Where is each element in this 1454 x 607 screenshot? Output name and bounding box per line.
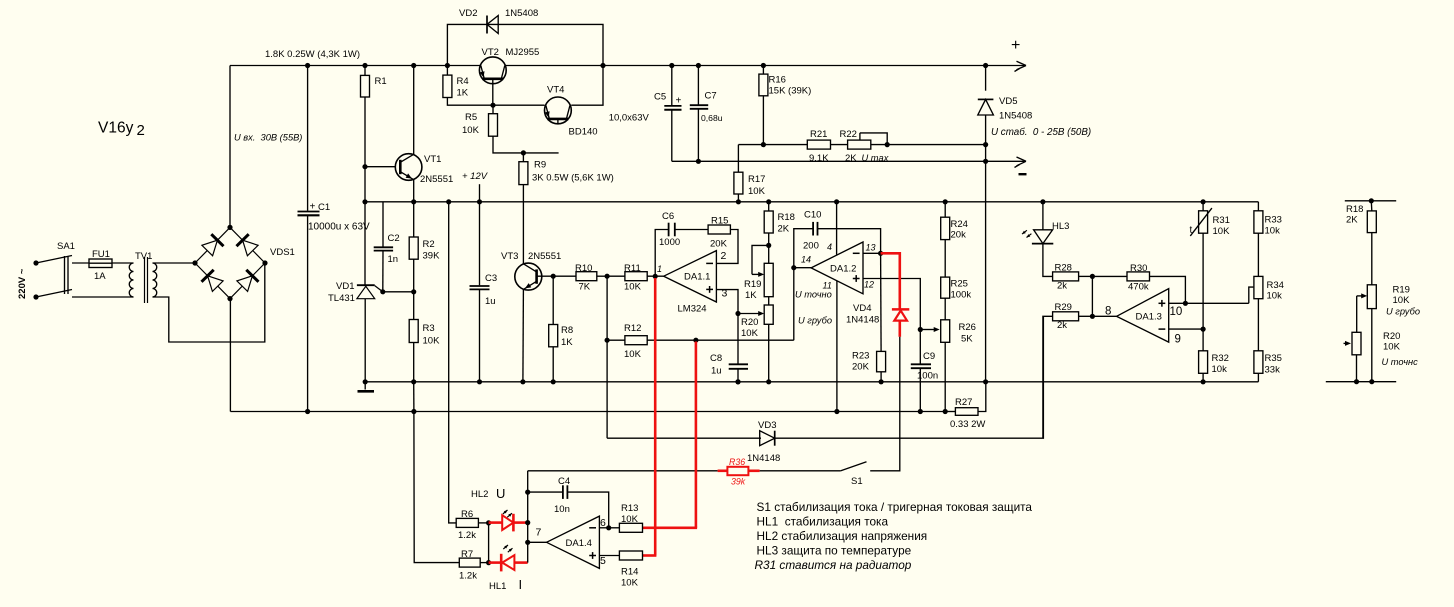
svg-text:R23: R23: [852, 351, 869, 362]
resistor R15: [708, 225, 730, 234]
wire VD3 row right: [774, 316, 1044, 438]
wire VD2 loop: [447, 24, 603, 65]
node HL3 rail: [1040, 199, 1045, 204]
op-amp DA1.4: [547, 516, 600, 568]
svg-text:5K: 5K: [961, 334, 973, 345]
resistor R36: [718, 469, 728, 472]
svg-text:1.2k: 1.2k: [459, 571, 477, 582]
svg-text:R6: R6: [461, 509, 473, 520]
svg-text:C9: C9: [923, 351, 935, 362]
resistor R7: [459, 558, 480, 567]
wire red DA1.1 output down: [654, 278, 657, 556]
diode bridge VDS1 bottom-left: [208, 276, 224, 292]
resistor R34 potentiometer: [1254, 276, 1263, 298]
wire VD1 anode: [364, 299, 366, 382]
node C7 top: [696, 63, 701, 68]
resistor R17: [737, 145, 739, 173]
resistor R32: [1202, 329, 1204, 351]
wire bridge arm BR: [230, 263, 265, 299]
wire +12V bus: [365, 201, 1258, 203]
svg-text:1A: 1A: [94, 271, 106, 282]
svg-text:9: 9: [1175, 334, 1181, 346]
svg-text:R29: R29: [1055, 302, 1072, 313]
svg-text:C7: C7: [705, 91, 717, 102]
svg-text:R2: R2: [423, 239, 435, 250]
wire pin4: [836, 202, 838, 255]
resistor R11: [607, 275, 625, 277]
capacitor C2: [382, 202, 384, 247]
wire SA1 bottom to TV1: [72, 296, 134, 298]
svg-text:R31: R31: [1213, 215, 1230, 226]
svg-text:C5: C5: [654, 92, 666, 103]
wire R28 R29 join: [1091, 276, 1093, 316]
node right R20 bottom: [1354, 379, 1359, 384]
transistor VT4 BD140: [545, 97, 572, 124]
node R4 rail: [445, 63, 450, 68]
arrow + output: [1017, 61, 1027, 65]
svg-text:R28: R28: [1055, 263, 1072, 274]
node HL1 left: [486, 560, 491, 565]
capacitor C1: [307, 66, 309, 211]
node R24 rail: [943, 199, 948, 204]
svg-text:+: +: [310, 202, 316, 213]
wire R34 wiper: [1249, 287, 1254, 303]
ground symbol: [364, 382, 366, 390]
svg-text:20K: 20K: [710, 239, 728, 250]
wire right bottom segment: [1326, 381, 1396, 383]
svg-text:1.2k: 1.2k: [458, 530, 476, 541]
node pin14: [791, 265, 796, 270]
node R10 R11: [605, 274, 610, 279]
svg-text:2k: 2k: [1057, 281, 1067, 292]
svg-text:R32: R32: [1212, 353, 1229, 364]
wire + output rail: [230, 65, 1026, 67]
resistor R23: [880, 253, 883, 351]
node R32 ground: [1201, 379, 1206, 384]
svg-text:2: 2: [721, 250, 727, 262]
node input top: [33, 260, 38, 265]
diode VD5: [985, 66, 987, 91]
resistor R20 potentiometer: [768, 297, 770, 305]
capacitor C6: [668, 223, 670, 237]
wire S1 column: [870, 337, 900, 471]
label - output: [1019, 173, 1027, 175]
node VT3 emitter ground: [520, 379, 525, 384]
svg-text:HL3 защита по температуре: HL3 защита по температуре: [757, 544, 912, 558]
node VT1 base: [362, 164, 367, 169]
node C9 bus: [918, 409, 923, 414]
svg-text:C6: C6: [662, 211, 674, 222]
svg-text:HL2 стабилизация напряжения: HL2 стабилизация напряжения: [757, 529, 928, 543]
svg-text:R14: R14: [621, 567, 638, 578]
wire VD5 col down: [985, 161, 987, 381]
svg-text:7: 7: [536, 527, 542, 539]
svg-text:10K: 10K: [741, 328, 759, 339]
svg-text:2N5551: 2N5551: [420, 174, 453, 185]
capacitor C9: [919, 330, 921, 364]
wire bridge arm BL: [195, 263, 230, 299]
wire - output rail: [672, 160, 1026, 162]
wire bridge bottom to minus bus: [229, 299, 231, 412]
svg-text:R4: R4: [457, 76, 469, 87]
node bridge left: [192, 260, 197, 265]
switch SA1: [36, 256, 72, 264]
resistor R35: [1254, 351, 1263, 374]
svg-text:R3: R3: [423, 323, 435, 334]
transistor VT3 2N5551: [515, 263, 542, 290]
node pin13: [878, 251, 883, 256]
svg-text:14: 14: [801, 255, 811, 265]
wire R21 R22: [831, 144, 848, 146]
svg-text:VD1: VD1: [336, 281, 354, 292]
wire S1 left lead: [760, 470, 841, 472]
wire VD3 row: [607, 437, 761, 439]
wire right top segment: [1345, 200, 1396, 202]
resistor R18 right: [1370, 201, 1373, 211]
diode VD1 TL431: [357, 284, 375, 286]
svg-text:SA1: SA1: [57, 241, 75, 252]
node pin7: [525, 540, 530, 545]
op-amp DA1.1: [664, 251, 717, 302]
capacitor C4: [528, 491, 563, 493]
resistor R25: [941, 277, 950, 298]
node R3 ground: [411, 379, 416, 384]
wire DA1.4 out column: [527, 471, 529, 563]
node input bottom: [33, 294, 38, 299]
resistor R16: [762, 66, 764, 75]
wire pin3: [716, 290, 738, 314]
svg-text:15K (39K): 15K (39K): [769, 86, 812, 97]
wire VT3 base: [537, 275, 554, 277]
svg-text:R16: R16: [769, 75, 786, 86]
node VT1 emitter rail: [411, 199, 416, 204]
svg-text:VT4: VT4: [547, 85, 564, 96]
wire pin12: [863, 279, 920, 330]
svg-text:MJ2955: MJ2955: [506, 47, 540, 58]
wire FU1 to TV1: [112, 262, 134, 264]
capacitor C3: [479, 202, 481, 285]
svg-text:U грубо: U грубо: [1386, 307, 1420, 317]
svg-text:C1: C1: [318, 202, 330, 213]
svg-text:R20: R20: [741, 317, 758, 328]
svg-text:10000u x 63V: 10000u x 63V: [308, 222, 370, 233]
wire VT3 emitter: [522, 290, 525, 382]
resistor R27: [945, 411, 955, 413]
svg-text:VD5: VD5: [999, 96, 1017, 107]
svg-text:12: 12: [864, 280, 874, 290]
node R20 wiper: [735, 311, 740, 316]
svg-text:R21: R21: [810, 129, 827, 140]
node VD5 top: [983, 63, 988, 68]
svg-text:1u: 1u: [485, 296, 496, 307]
resistor R1: [364, 66, 366, 76]
diode VD4: [892, 308, 909, 311]
svg-text:2K: 2K: [778, 224, 790, 235]
wire pin9: [1169, 328, 1203, 330]
svg-text:R15: R15: [711, 216, 728, 227]
svg-text:5: 5: [600, 555, 606, 567]
wire bridge arm TL: [195, 227, 230, 263]
diode bridge VDS1 top-right: [243, 240, 259, 256]
svg-text:R27: R27: [955, 397, 972, 408]
svg-text:20k: 20k: [951, 230, 967, 241]
node R12 red tap: [693, 338, 698, 343]
svg-text:R5: R5: [465, 112, 477, 123]
wire R33 column: [1257, 202, 1259, 211]
node R1 top: [362, 63, 367, 68]
svg-text:1: 1: [657, 264, 662, 274]
node R28 R30: [1090, 274, 1095, 279]
svg-text:BD140: BD140: [569, 127, 598, 138]
node R31 rail: [1201, 199, 1206, 204]
wire R21 row: [738, 144, 807, 146]
node pin9 R31: [1201, 327, 1206, 332]
wire S1 row: [528, 470, 718, 472]
svg-text:U max: U max: [862, 153, 889, 163]
node R8 ground: [551, 379, 556, 384]
transistor VT2 MJ2955: [479, 57, 506, 84]
node C4 left: [525, 490, 530, 495]
svg-text:0,68u: 0,68u: [701, 113, 723, 123]
svg-text:U точно: U точно: [795, 290, 832, 300]
svg-text:LM324: LM324: [678, 304, 707, 315]
svg-text:U грубо: U грубо: [798, 316, 832, 326]
wire pin10: [1169, 302, 1249, 304]
resistor R13: [609, 527, 620, 529]
svg-text:10K: 10K: [624, 349, 642, 360]
svg-text:10K: 10K: [462, 125, 480, 136]
svg-text:S1: S1: [851, 476, 863, 487]
wire R22 right: [871, 144, 986, 146]
svg-text:10K: 10K: [1393, 295, 1411, 306]
svg-text:10k: 10k: [1265, 226, 1281, 237]
svg-text:10K: 10K: [624, 282, 642, 293]
wire C6 left: [655, 230, 668, 277]
wire pin13: [863, 252, 881, 254]
svg-text:100n: 100n: [917, 371, 938, 382]
svg-text:HL3: HL3: [1052, 221, 1069, 232]
resistor R14: [619, 551, 642, 560]
node HL2 left: [486, 520, 491, 525]
wire red R13 up: [695, 342, 698, 528]
svg-text:C10: C10: [804, 210, 821, 221]
wire red to R14: [643, 554, 657, 557]
node R21 row end: [983, 142, 988, 147]
wire pin5: [599, 555, 619, 557]
svg-text:R33: R33: [1265, 215, 1282, 226]
node bridge bottom: [227, 296, 232, 301]
svg-text:10K: 10K: [621, 578, 639, 589]
node pin10 R30: [1183, 301, 1188, 306]
node bridge right: [262, 260, 267, 265]
svg-text:I: I: [519, 577, 523, 592]
diode bridge VDS1 top-left: [202, 240, 218, 256]
resistor R9: [522, 153, 524, 162]
led HL2: [489, 521, 503, 524]
svg-text:1N5408: 1N5408: [505, 8, 538, 19]
wire ground bus: [365, 381, 1258, 383]
wire base row to VT4: [493, 104, 545, 106]
svg-text:t: t: [1190, 225, 1193, 236]
wire pin14: [794, 267, 811, 269]
svg-text:R9: R9: [534, 160, 546, 171]
node C1 top: [305, 63, 310, 68]
node R22 wiper: [885, 142, 890, 147]
node R12 left: [605, 338, 610, 343]
node R16 bottom: [761, 142, 766, 147]
svg-text:HL1 стабилизация тока: HL1 стабилизация тока: [757, 514, 889, 528]
node minus bus R3: [411, 409, 416, 414]
svg-text:200: 200: [803, 241, 819, 252]
wire VT2 base down: [492, 84, 494, 106]
node C3 top: [477, 199, 482, 204]
svg-text:R24: R24: [951, 219, 968, 230]
label 220V: [17, 268, 28, 299]
wire red R13 row: [643, 526, 698, 529]
resistor R10: [553, 275, 576, 277]
svg-text:R34: R34: [1267, 280, 1284, 291]
svg-text:U стаб. 0 - 25В (50В): U стаб. 0 - 25В (50В): [991, 127, 1091, 138]
svg-text:R19: R19: [1393, 285, 1410, 296]
node bridge top: [227, 225, 232, 230]
svg-text:VT2: VT2: [482, 47, 499, 58]
node R16 top: [761, 63, 766, 68]
node HL2 right: [525, 520, 530, 525]
svg-text:C2: C2: [388, 233, 400, 244]
node DA1.1 output: [653, 274, 658, 279]
node R2 bottom: [411, 289, 416, 294]
wire R26 wiper: [920, 329, 935, 331]
node R26 bus: [943, 409, 948, 414]
svg-text:10: 10: [1170, 306, 1183, 318]
resistor R5: [492, 105, 494, 114]
svg-text:R12: R12: [624, 323, 641, 334]
led HL1: [489, 561, 502, 564]
svg-text:10n: 10n: [554, 504, 570, 515]
capacitor C5: [671, 66, 673, 106]
wire pin6: [599, 527, 608, 529]
svg-text:HL1: HL1: [489, 581, 506, 592]
svg-text:R7: R7: [461, 549, 473, 560]
svg-text:R17: R17: [748, 174, 765, 185]
svg-text:R36: R36: [729, 457, 745, 467]
resistor R4: [446, 66, 448, 76]
svg-text:R8: R8: [561, 325, 573, 336]
wire junction to VD3 row: [606, 340, 608, 438]
node R18 rail: [766, 199, 771, 204]
svg-text:4: 4: [827, 242, 832, 252]
svg-text:HL2: HL2: [471, 489, 488, 500]
wire R29 feed: [1043, 316, 1053, 438]
resistor R31 thermistor: [1202, 202, 1204, 211]
svg-text:C3: C3: [485, 273, 497, 284]
svg-text:+: +: [676, 96, 682, 107]
svg-text:R18: R18: [1346, 204, 1363, 215]
wire TV1 secondary top to bridge: [153, 262, 196, 264]
op-amp DA1.3: [1117, 289, 1169, 343]
svg-text:1000: 1000: [659, 237, 680, 248]
resistor R28: [1053, 272, 1079, 281]
svg-text:0.33 2W: 0.33 2W: [950, 419, 985, 430]
svg-text:VDS1: VDS1: [270, 247, 295, 258]
svg-text:DA1.2: DA1.2: [830, 264, 856, 275]
svg-text:DA1.3: DA1.3: [1136, 312, 1162, 323]
wire bridge arm TR: [230, 227, 265, 263]
svg-text:39K: 39K: [423, 251, 441, 262]
svg-text:1K: 1K: [561, 337, 573, 348]
node VT1 collector rail: [411, 63, 416, 68]
svg-text:2: 2: [137, 122, 145, 139]
node VT2 base R5: [490, 103, 495, 108]
svg-text:1N4148: 1N4148: [747, 453, 780, 464]
svg-text:7K: 7K: [579, 282, 591, 293]
resistor R18: [768, 202, 770, 211]
svg-text:U вх. 30В (55В): U вх. 30В (55В): [234, 133, 302, 143]
node 12V rail R1: [362, 199, 367, 204]
node pin4 rail: [834, 199, 839, 204]
svg-text:2N5551: 2N5551: [528, 251, 561, 262]
svg-text:39k: 39k: [731, 477, 746, 487]
svg-text:R13: R13: [621, 503, 638, 514]
wire R1 to 12V rail: [364, 167, 366, 202]
node C9 top: [918, 327, 923, 332]
capacitor C8: [729, 363, 748, 365]
resistor R30: [1092, 275, 1127, 277]
svg-text:R26: R26: [959, 322, 976, 333]
svg-text:9.1K: 9.1K: [809, 153, 829, 164]
wire ref row: [383, 291, 414, 293]
svg-text:V16y: V16y: [98, 120, 134, 137]
wire minus bus: [230, 411, 945, 413]
wire SA1 to FU1: [72, 262, 89, 264]
svg-text:1n: 1n: [388, 254, 399, 265]
svg-text:R18: R18: [778, 212, 795, 223]
wire pin11: [836, 281, 838, 412]
svg-text:1N5408: 1N5408: [999, 111, 1032, 122]
node C7 bottom: [696, 159, 701, 164]
svg-text:470k: 470k: [1128, 282, 1149, 293]
svg-text:R20: R20: [1383, 331, 1400, 342]
diode bridge VDS1 bottom-right: [237, 276, 253, 292]
svg-text:220V ~: 220V ~: [17, 268, 28, 299]
wire pin14 column: [794, 229, 813, 341]
node DA1.3 out: [1090, 314, 1095, 319]
wire VD5 to minus rail: [985, 145, 987, 162]
capacitor C10: [812, 222, 814, 236]
svg-text:3K 0.5W (5,6K 1W): 3K 0.5W (5,6K 1W): [532, 173, 614, 184]
resistor R26 potentiometer: [941, 320, 950, 343]
resistor R22 potentiometer: [848, 140, 871, 149]
svg-text:10K: 10K: [621, 514, 639, 525]
svg-text:R1: R1: [375, 76, 387, 87]
node R18 bottom: [766, 243, 771, 248]
node pin3 ground: [735, 379, 740, 384]
wire R6 feed: [449, 202, 457, 523]
op-amp DA1.2: [811, 242, 863, 294]
svg-text:U: U: [496, 486, 505, 501]
node R6 feed rail: [446, 199, 451, 204]
node VD2 right rail: [600, 63, 605, 68]
led HL3: [1042, 202, 1044, 230]
node C1 bottom: [305, 409, 310, 414]
wire VT1 collector: [413, 66, 415, 155]
resistor R20 right potentiometer: [1352, 332, 1361, 355]
svg-text:C4: C4: [558, 476, 570, 487]
svg-text:10K: 10K: [423, 336, 441, 347]
svg-text:2K: 2K: [845, 153, 857, 164]
transformer TV1: [129, 263, 133, 297]
node VD5 minus rail: [983, 159, 988, 164]
